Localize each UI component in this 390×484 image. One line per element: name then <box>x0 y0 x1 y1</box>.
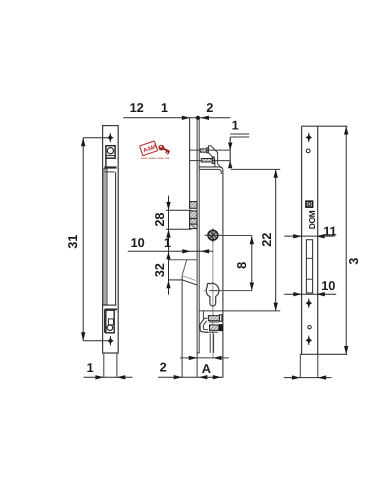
svg-text:28: 28 <box>152 213 167 227</box>
top screw 1 <box>200 148 208 153</box>
svg-text:A: A <box>202 361 211 376</box>
bottom extension lines of left view <box>104 353 117 377</box>
svg-text:1: 1 <box>161 100 168 115</box>
dimension 31 <box>65 138 110 341</box>
svg-text:10: 10 <box>131 235 145 250</box>
top screw diamond <box>306 133 313 142</box>
red key icon <box>157 144 171 155</box>
top centre diamond marker <box>107 133 114 142</box>
svg-text:1: 1 <box>164 235 171 250</box>
vertical brand text <box>307 210 317 229</box>
red stamp logo <box>140 141 159 156</box>
tiny red text line <box>141 158 170 159</box>
vertical centerline <box>212 230 214 358</box>
euro profile cylinder <box>206 283 219 306</box>
angled bracket piece <box>209 146 221 167</box>
bottom centre diamond marker <box>107 336 114 345</box>
bottom screw diamond <box>306 336 313 345</box>
svg-text:DOM: DOM <box>307 210 317 229</box>
dimension row A (y=357.9) <box>180 356 229 360</box>
svg-text:2: 2 <box>206 100 213 115</box>
bottom bar <box>103 305 117 310</box>
dimension row 2 / A (y=377.2) <box>158 360 223 380</box>
svg-text:8: 8 <box>234 262 249 269</box>
dimension 1 (top right) <box>228 118 239 169</box>
right view bottom extensions <box>300 354 318 377</box>
hatched fixing bar (28) <box>190 202 197 229</box>
top small hole <box>306 149 310 153</box>
svg-text:32: 32 <box>152 263 167 277</box>
latch bolt section <box>169 260 197 285</box>
bottom screw 2 <box>210 324 224 331</box>
grey channel <box>103 169 116 305</box>
top dark bar <box>104 166 116 172</box>
lock case top and right edge <box>199 167 281 377</box>
dimension 8 <box>234 236 254 291</box>
bottom screw 1 <box>208 315 222 322</box>
faceplate side outer body <box>103 126 119 353</box>
svg-text:1: 1 <box>232 118 239 133</box>
dimension 10 / 1 horizontal <box>128 235 213 253</box>
28 / 1 / 32 dimension chain line <box>152 196 191 295</box>
screw shaft lines top <box>189 150 230 161</box>
dimension 3 <box>344 126 361 354</box>
svg-text:10: 10 <box>321 278 335 293</box>
dimension 1 (left view bottom) <box>84 360 133 380</box>
brand square mark <box>306 201 313 207</box>
top dimension chain 12 / 1 / 2 <box>123 100 230 120</box>
lower small hole <box>308 326 311 329</box>
cylinder centerline dash <box>204 290 252 292</box>
right view bottom dimension <box>284 375 332 379</box>
spring clip hook <box>200 319 208 333</box>
svg-text:2: 2 <box>160 360 167 375</box>
svg-text:12: 12 <box>130 100 144 115</box>
latch cutout <box>306 240 312 293</box>
dimension 10 (right view) <box>284 278 336 297</box>
bottom lug top line (also 22 extension) <box>199 310 280 312</box>
faceplate front outline <box>300 126 348 354</box>
svg-text:11: 11 <box>323 223 336 238</box>
latch tip extension line <box>181 281 183 377</box>
top screw 2 <box>201 157 214 164</box>
clip lower legs <box>204 332 218 353</box>
channel front line <box>189 118 191 202</box>
faceplate extension to bottom dims <box>196 353 198 377</box>
svg-text:31: 31 <box>65 235 80 249</box>
middle screw diamond <box>306 298 313 307</box>
faceplate section <box>197 118 200 353</box>
dimension 22 <box>259 169 278 311</box>
svg-text:3: 3 <box>346 258 361 265</box>
follower circle <box>205 228 222 242</box>
svg-text:1: 1 <box>87 360 94 375</box>
bottom roller box <box>105 309 115 332</box>
bottom bracket <box>203 311 207 318</box>
dimension 11 <box>284 223 336 238</box>
top roller box <box>106 146 115 167</box>
top rod <box>230 134 249 168</box>
svg-text:22: 22 <box>259 233 274 247</box>
leader to 8 dim <box>218 235 252 237</box>
